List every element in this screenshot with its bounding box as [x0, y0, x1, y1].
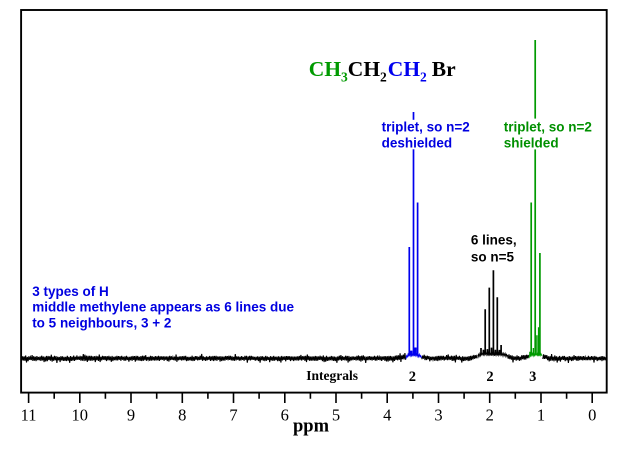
plot frame border	[21, 10, 607, 393]
black sextet peak lines (middle CH2, ~1.9 ppm)	[481, 270, 501, 354]
svg-text:10: 10	[72, 405, 89, 424]
svg-text:to 5 neighbours, 3 + 2: to 5 neighbours, 3 + 2	[32, 316, 171, 331]
x-axis tick labels 11..0	[21, 405, 597, 424]
svg-text:triplet, so n=2: triplet, so n=2	[504, 120, 592, 135]
green peak pedestal/foot	[529, 353, 542, 358]
svg-text:middle methylene appears as 6: middle methylene appears as 6 lines due	[32, 300, 294, 315]
svg-text:triplet, so n=2: triplet, so n=2	[382, 119, 470, 134]
svg-text:2: 2	[409, 369, 416, 385]
svg-text:0: 0	[588, 405, 596, 424]
svg-text:3: 3	[529, 369, 536, 385]
svg-text:11: 11	[21, 405, 37, 424]
svg-text:9: 9	[127, 405, 135, 424]
svg-text:1: 1	[537, 405, 545, 424]
black annotation: 6 lines, / so n=5	[471, 233, 517, 265]
blue triplet peak lines (CH2Br, ~3.5 ppm)	[409, 112, 417, 356]
green triplet peak lines (CH3, ~1.1 ppm)	[531, 40, 540, 355]
black multiplet pedestal/foot noise	[478, 352, 508, 359]
svg-text:ppm: ppm	[293, 416, 330, 436]
svg-text:4: 4	[383, 405, 391, 424]
white background box for blue annotation	[381, 120, 470, 150]
svg-text:deshielded: deshielded	[382, 135, 453, 150]
svg-text:so n=5: so n=5	[471, 249, 515, 264]
svg-text:6: 6	[281, 405, 289, 424]
blue peak pedestal/foot	[406, 353, 421, 359]
svg-text:2: 2	[486, 405, 494, 424]
blue paragraph: 3 types of H ...	[32, 284, 294, 331]
blue annotation: triplet, so n=2 / deshielded	[382, 119, 470, 150]
svg-text:7: 7	[229, 405, 237, 424]
svg-text:3 types of H: 3 types of H	[32, 284, 109, 299]
svg-text:Integrals: Integrals	[306, 368, 358, 383]
svg-text:5: 5	[332, 405, 340, 424]
svg-text:2: 2	[486, 369, 493, 385]
svg-text:3: 3	[434, 405, 442, 424]
green annotation: triplet, so n=2 / shielded	[504, 120, 592, 151]
svg-text:8: 8	[178, 405, 186, 424]
svg-text:shielded: shielded	[504, 136, 559, 151]
x-axis major and minor ticks	[29, 393, 593, 403]
white background box for green annotation	[503, 119, 591, 150]
baseline noise trace (black)	[22, 353, 406, 363]
svg-text:6 lines,: 6 lines,	[471, 233, 517, 248]
